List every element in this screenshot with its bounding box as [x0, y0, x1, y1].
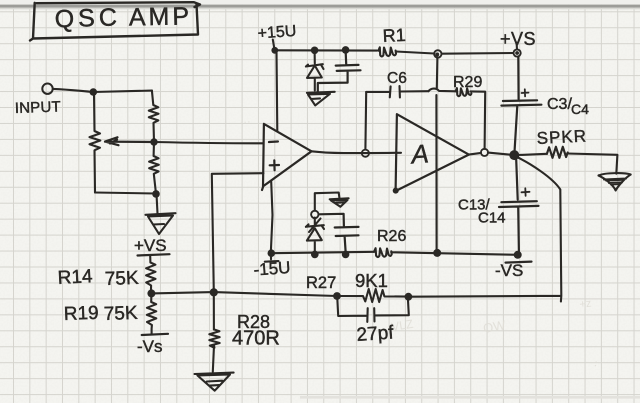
junction: rail / zener D2 — [311, 251, 319, 259]
svg-text:AMP: AMP — [129, 2, 193, 31]
wire: divider to ground — [157, 194, 158, 214]
input terminal J1 — [42, 84, 52, 94]
wire: U1 V- to -15 rail — [271, 182, 273, 254]
resistor: pot element left — [90, 93, 101, 193]
svg-text:QSC: QSC — [54, 3, 121, 33]
wire hop over supply line — [429, 89, 456, 92]
svg-text:···: ··· — [239, 116, 251, 129]
wire: junction to R28 — [213, 292, 215, 329]
op-amp U1 — [262, 124, 312, 190]
svg-text:R29: R29 — [453, 74, 482, 91]
svg-text:R26: R26 — [377, 228, 406, 245]
svg-text:INPUT: INPUT — [15, 98, 62, 117]
resistor R14 — [146, 256, 155, 294]
wire: wiper node to U1 inverting input — [154, 142, 264, 143]
zener D1 — [306, 50, 324, 90]
power rail -15V — [271, 252, 517, 255]
svg-text:R19: R19 — [63, 303, 99, 325]
U1 plus sign — [270, 160, 279, 170]
junction: feedback / R28 / U1+ — [210, 288, 218, 296]
U1 minus sign — [269, 140, 278, 143]
junction circled: U1 output / C6 tap — [362, 150, 369, 157]
capacitor C3/C4 — [501, 57, 541, 153]
wire: pot bottom — [95, 193, 156, 194]
C13/C14 plus sign — [522, 188, 530, 196]
wire: R29 to A output — [470, 91, 485, 148]
junction: feedback / R27 left — [333, 292, 341, 300]
terminal bar +VS (divider top) — [138, 254, 170, 255]
junction: rail / cap C1 — [342, 46, 350, 54]
junction: output node — [509, 150, 519, 160]
resistor R26 — [374, 248, 392, 257]
svg-text:+VS: +VS — [134, 236, 167, 255]
junction circled: zener D2 top — [311, 211, 318, 218]
wire: +15 rail to U1 V+ — [275, 51, 278, 132]
capacitor 27pF — [337, 296, 409, 322]
ground: zener D2 — [330, 198, 349, 207]
wire: output to SPKR resistor — [519, 154, 547, 155]
resistor R27 9K1 — [337, 289, 408, 302]
svg-text:+15U: +15U — [257, 23, 297, 43]
junction: C13/C14 to -VS rail — [514, 251, 522, 259]
capacitor C6 left leg — [364, 92, 367, 150]
junction: feedback / R27 right — [405, 293, 413, 301]
power rail +15V — [275, 50, 514, 53]
capacitor C13/C14 — [499, 160, 539, 252]
wire input to divider top — [53, 89, 152, 92]
terminal bar -VS — [506, 262, 532, 263]
svg-text:470R: 470R — [232, 328, 280, 350]
junction: divider node R14/R19 — [147, 289, 155, 297]
svg-text:R1: R1 — [382, 25, 406, 46]
capacitor C6 — [366, 86, 428, 98]
wire: A output to output node — [469, 153, 515, 156]
junction dot: A lower-left pen rest — [393, 188, 399, 194]
svg-text:C3/: C3/ — [547, 96, 572, 113]
svg-text:C14: C14 — [478, 210, 506, 227]
capacitor C1 (supply bypass +) — [318, 50, 361, 92]
junction: C2 to rail — [342, 251, 350, 259]
junction: divider bottom — [152, 190, 160, 198]
wire: U1 output to A input — [312, 151, 402, 153]
resistor R19 — [147, 293, 156, 333]
terminal +VS — [514, 49, 521, 56]
resistor R29 — [456, 88, 472, 96]
svg-text:R14: R14 — [57, 266, 93, 289]
resistor R28 — [209, 329, 219, 371]
terminal tick +15U — [273, 40, 275, 49]
wire: SPKR to ground — [567, 154, 617, 174]
amplifier block A — [396, 114, 469, 191]
resistor: divider lower right — [149, 142, 159, 194]
svg-text:9K1: 9K1 — [355, 270, 388, 291]
resistor R1 — [378, 47, 396, 56]
svg-text:75K: 75K — [103, 303, 138, 325]
svg-text:C6: C6 — [387, 70, 407, 87]
feedback wire: output node diagonal down — [412, 156, 562, 302]
junction: wiper node — [150, 138, 157, 145]
wire: rail junction down through A to -15 rail — [436, 58, 437, 251]
wire: U1 noninverting input from feedback divider — [212, 173, 264, 292]
svg-text:-VS: -VS — [495, 261, 523, 280]
svg-text:-Vs: -Vs — [137, 337, 163, 356]
junction: rail / zener D1 — [311, 47, 319, 55]
ground: R28 — [195, 373, 234, 391]
resistor: divider upper right — [149, 91, 159, 142]
svg-text:A: A — [408, 138, 429, 169]
feedback wire: R27 node to divider node — [151, 292, 337, 296]
ground: speaker return — [599, 173, 631, 190]
wire: D2 box top to ground — [315, 193, 340, 211]
ground: input divider — [146, 213, 176, 234]
potentiometer wiper arrow — [105, 137, 154, 145]
junction circled: rail / R29 drop — [434, 50, 441, 57]
ground: zener D1 — [307, 92, 335, 106]
junction: rail left end at +15U — [271, 47, 278, 54]
svg-text:C4: C4 — [571, 101, 589, 117]
junction circled: A output — [481, 149, 488, 156]
resistor SPKR — [547, 147, 568, 158]
capacitor C2 (supply bypass -) — [319, 214, 359, 252]
svg-text:75K: 75K — [104, 268, 139, 290]
junction: input node — [90, 88, 98, 96]
zener D2 — [306, 218, 324, 255]
C3/C4 plus sign — [522, 89, 529, 96]
svg-text:SPKR: SPKR — [536, 126, 587, 148]
svg-text:+z: +z — [579, 297, 592, 311]
svg-text:-15U: -15U — [253, 258, 291, 280]
terminal +VS tick — [516, 43, 519, 50]
terminal bar -Vs (divider bottom) — [142, 334, 168, 335]
svg-text:R27: R27 — [306, 274, 336, 292]
junction: rail / supply drop — [433, 249, 441, 257]
title box — [30, 2, 200, 40]
svg-text:27pf: 27pf — [356, 322, 395, 346]
junction: -15 rail left end — [268, 249, 276, 257]
svg-text:+VS: +VS — [500, 29, 536, 49]
